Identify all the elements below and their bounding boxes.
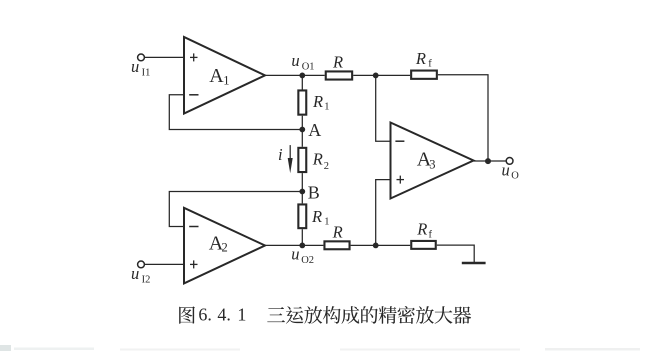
- svg-text:B: B: [308, 183, 320, 203]
- svg-text:I2: I2: [142, 275, 151, 286]
- wire u_I2 to A2 non-inverting input: [145, 263, 184, 265]
- svg-text:6.: 6.: [198, 304, 212, 324]
- resistor R2: [298, 130, 329, 192]
- feedback wire node A to A1 inverting input: [169, 95, 302, 130]
- wire lower junction to A3 non-inverting input: [376, 180, 391, 246]
- svg-text:I1: I1: [142, 68, 151, 79]
- label u_O2: [291, 244, 314, 266]
- output node: [485, 158, 491, 164]
- op-amp A1: [184, 37, 265, 114]
- svg-text:4.: 4.: [217, 304, 231, 324]
- svg-text:A: A: [209, 65, 224, 87]
- wire A2 output to node u_O2: [265, 244, 302, 246]
- label u_O1: [291, 51, 314, 72]
- current arrow i: [278, 145, 293, 173]
- terminal u_I2: [138, 261, 145, 268]
- scan artifact: faint bottom edge smudges (decorative): [0, 345, 640, 351]
- svg-text:R: R: [415, 49, 426, 68]
- terminal u_O: [506, 158, 513, 165]
- svg-text:i: i: [278, 145, 283, 164]
- label u_I1: [131, 57, 150, 79]
- wire A3 output to terminal: [474, 160, 507, 162]
- svg-text:R: R: [332, 222, 343, 241]
- op-amp A2: [184, 208, 265, 284]
- svg-text:1: 1: [324, 216, 329, 227]
- svg-text:f: f: [429, 229, 433, 240]
- resistor R1 (lower): [298, 192, 329, 246]
- wire R_f (lower) to ground: [437, 245, 474, 262]
- resistor R (upper): [302, 53, 375, 80]
- ground: [462, 262, 486, 264]
- svg-text:O1: O1: [302, 62, 315, 73]
- svg-text:R: R: [311, 207, 322, 226]
- junction node (upper): [373, 73, 379, 79]
- wire A1 output to node u_O1: [265, 74, 302, 76]
- svg-text:3: 3: [429, 157, 435, 171]
- svg-text:u: u: [291, 51, 299, 70]
- svg-text:R: R: [332, 53, 343, 72]
- svg-text:u: u: [502, 160, 510, 179]
- svg-text:1: 1: [223, 73, 229, 87]
- svg-text:R: R: [312, 150, 323, 169]
- svg-text:1: 1: [324, 102, 329, 113]
- svg-text:u: u: [291, 244, 299, 263]
- svg-text:1: 1: [237, 304, 246, 324]
- node u_O2: [299, 243, 305, 249]
- svg-text:A: A: [308, 120, 321, 140]
- resistor R_f (upper): [376, 49, 437, 79]
- junction node (lower): [373, 243, 379, 249]
- label u_O: [502, 160, 520, 181]
- svg-text:f: f: [428, 59, 432, 70]
- wire upper junction to A3 inverting input: [376, 75, 391, 141]
- node B: [299, 189, 305, 195]
- svg-text:2: 2: [222, 241, 228, 255]
- svg-text:O: O: [511, 171, 519, 182]
- op-amp A3: [391, 123, 474, 199]
- caption: figure 6.4.1 three op-amp precision amplifier: [179, 304, 471, 324]
- label u_I2: [131, 264, 150, 286]
- node A: [299, 127, 305, 133]
- svg-text:u: u: [131, 57, 139, 76]
- resistor R_f (lower): [376, 220, 436, 249]
- wire R_f (upper) to output node: [438, 75, 488, 161]
- feedback wire node B to A2 inverting input: [169, 192, 302, 227]
- wire u_I1 to A1 non-inverting input: [145, 56, 184, 58]
- terminal u_I1: [138, 54, 145, 61]
- svg-text:R: R: [312, 92, 323, 111]
- resistor R1 (upper): [298, 75, 329, 129]
- resistor R (lower): [302, 222, 375, 249]
- svg-text:u: u: [131, 264, 139, 283]
- svg-text:O2: O2: [301, 255, 314, 266]
- svg-text:2: 2: [324, 161, 329, 172]
- svg-text:R: R: [416, 220, 427, 239]
- node u_O1: [299, 73, 305, 79]
